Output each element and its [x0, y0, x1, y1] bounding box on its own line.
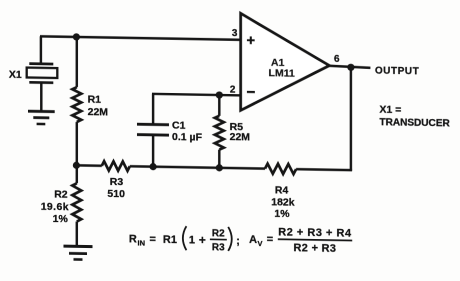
svg-text:R3: R3 [212, 242, 225, 253]
svg-text:510: 510 [107, 188, 125, 200]
svg-text:R2: R2 [212, 228, 225, 239]
svg-text:X1 =: X1 = [379, 104, 401, 116]
svg-text:19.6k: 19.6k [41, 201, 69, 213]
svg-text:LM11: LM11 [269, 67, 295, 79]
svg-text:+: + [199, 233, 206, 247]
svg-text:R4: R4 [275, 184, 289, 196]
svg-text:2: 2 [230, 85, 236, 96]
svg-text:IN: IN [138, 238, 145, 247]
svg-text:C1: C1 [172, 119, 186, 131]
svg-text:6: 6 [334, 54, 340, 65]
svg-text:R: R [129, 233, 137, 245]
svg-text:R3: R3 [110, 176, 124, 188]
svg-text:R1: R1 [88, 93, 102, 105]
svg-text:=: = [150, 233, 156, 245]
svg-text:A: A [249, 234, 257, 246]
svg-text:R2 + R3: R2 + R3 [294, 242, 337, 255]
svg-text:=: = [267, 234, 273, 246]
svg-text:OUTPUT: OUTPUT [375, 65, 419, 77]
svg-text:0.1 µF: 0.1 µF [172, 131, 203, 144]
svg-text:R2 + R3 + R4: R2 + R3 + R4 [278, 226, 352, 239]
svg-text:R1: R1 [163, 234, 177, 246]
svg-text:V: V [258, 239, 263, 248]
svg-text:TRANSDUCER: TRANSDUCER [379, 117, 450, 129]
svg-text:1: 1 [189, 234, 195, 246]
svg-text:1%: 1% [274, 208, 290, 220]
svg-text:;: ; [236, 235, 240, 247]
svg-text:X1: X1 [9, 69, 22, 81]
svg-text:22M: 22M [88, 106, 109, 118]
svg-text:3: 3 [232, 28, 238, 39]
svg-text:22M: 22M [230, 131, 251, 143]
svg-text:R2: R2 [54, 189, 68, 201]
svg-text:1%: 1% [53, 213, 69, 225]
